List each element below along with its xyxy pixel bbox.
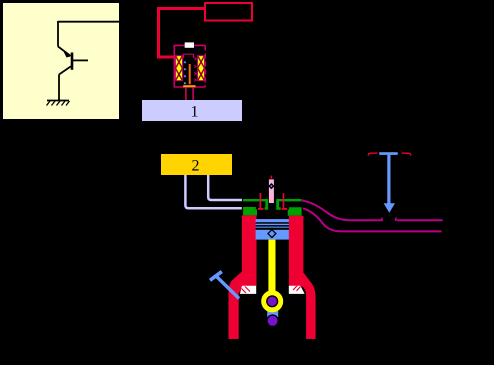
svg-text:1: 1 <box>191 104 199 121</box>
svg-text:2: 2 <box>192 157 200 174</box>
